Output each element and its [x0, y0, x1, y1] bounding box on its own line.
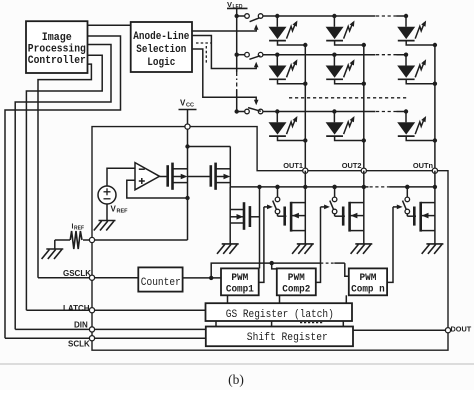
svg-text:Processing: Processing	[28, 43, 86, 55]
svg-text:Comp1: Comp1	[226, 285, 254, 296]
svg-text:OUT2: OUT2	[342, 161, 362, 170]
svg-text:Logic: Logic	[147, 57, 175, 69]
svg-text:Shift Register: Shift Register	[247, 332, 328, 344]
svg-text:Image: Image	[42, 32, 72, 44]
svg-text:LATCH: LATCH	[63, 304, 90, 313]
svg-text:DOUT: DOUT	[451, 324, 472, 333]
svg-text:PWM: PWM	[288, 273, 305, 284]
svg-text:Controller: Controller	[28, 55, 86, 67]
svg-text:V: V	[227, 0, 232, 9]
svg-text:DIN: DIN	[74, 321, 88, 330]
svg-text:Counter: Counter	[141, 277, 181, 289]
svg-text:(b): (b)	[228, 372, 244, 387]
svg-text:OUT1: OUT1	[283, 161, 303, 170]
svg-text:GSCLK: GSCLK	[63, 269, 91, 278]
svg-text:REF: REF	[117, 209, 129, 215]
svg-text:CC: CC	[186, 103, 194, 109]
svg-text:PWM: PWM	[359, 273, 376, 284]
svg-text:Comp n: Comp n	[351, 285, 385, 296]
svg-text:Comp2: Comp2	[282, 285, 310, 296]
svg-text:REF: REF	[74, 226, 84, 232]
svg-text:PWM: PWM	[231, 273, 248, 284]
svg-text:Selection: Selection	[136, 44, 186, 56]
svg-text:Anode-Line: Anode-Line	[133, 31, 189, 43]
svg-text:OUTn: OUTn	[413, 161, 434, 170]
svg-text:GS Register (latch): GS Register (latch)	[226, 309, 334, 321]
svg-text:SCLK: SCLK	[68, 340, 90, 349]
